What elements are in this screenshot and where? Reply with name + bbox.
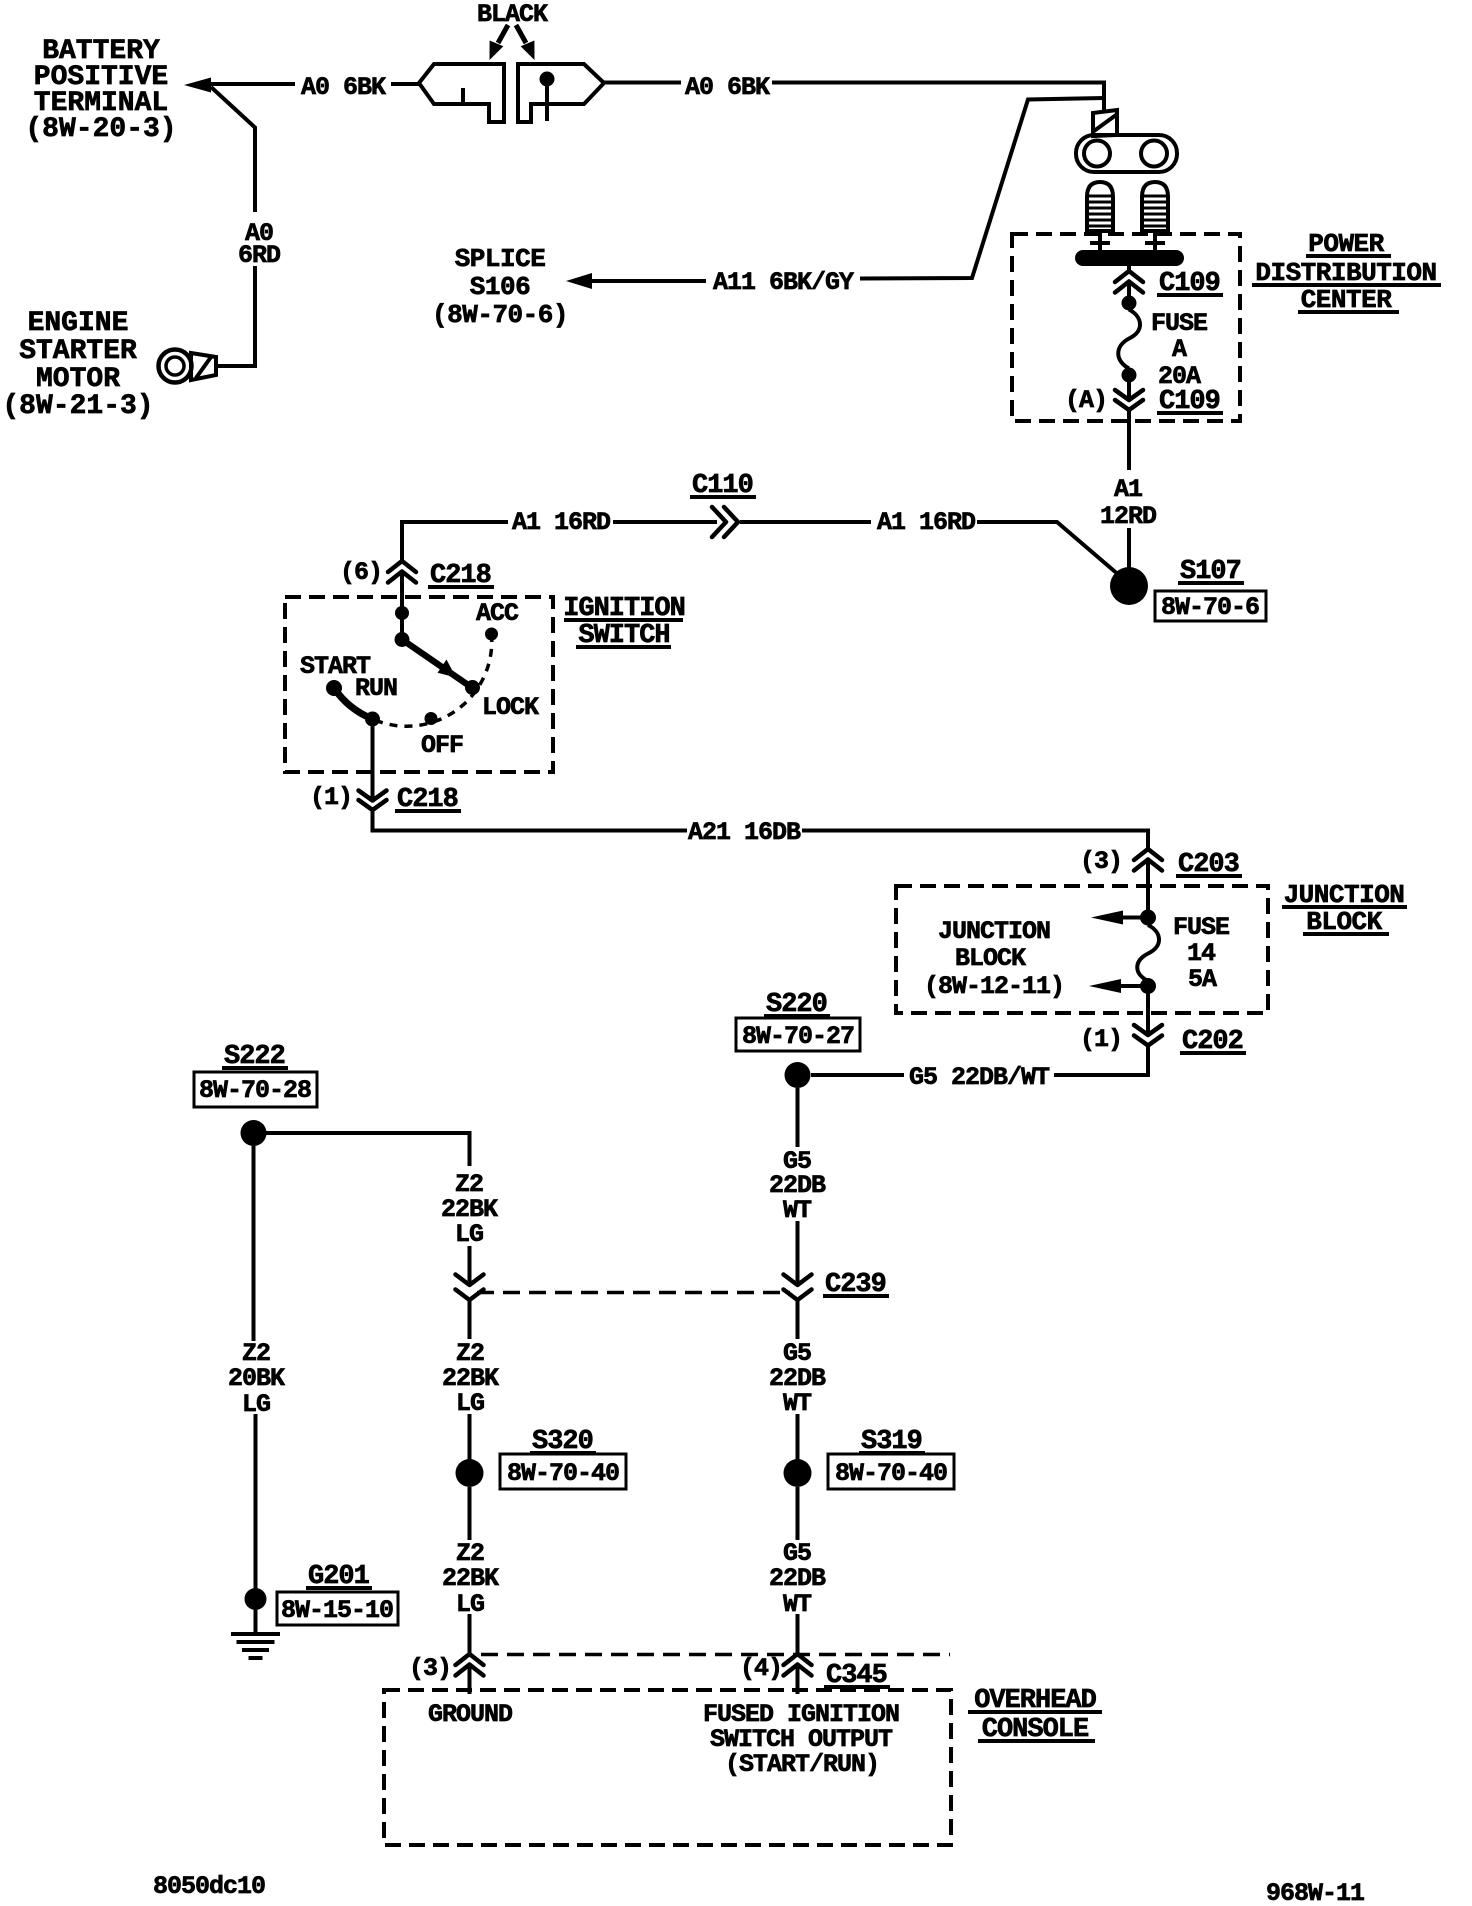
label FUSE 14 5A [1173, 913, 1229, 994]
wire label to S107 [1127, 528, 1131, 568]
wire RUN to C218 pin 1 [371, 723, 375, 801]
wire to splice arrow [592, 279, 706, 283]
OFF position dot [425, 712, 438, 725]
dashed position arc [373, 634, 492, 726]
wire A1 12RD below PDC [1127, 410, 1131, 470]
svg-text:S106: S106 [470, 272, 530, 302]
svg-text:A: A [1172, 335, 1187, 364]
in-line connector left half [419, 64, 504, 122]
svg-text:A11 6BK/GY: A11 6BK/GY [713, 268, 854, 297]
ACC position dot [485, 628, 498, 641]
junction node top [1140, 910, 1156, 926]
wire from label to power distribution center [772, 83, 1104, 114]
connector C109 bottom (down chevrons) [1115, 390, 1143, 410]
svg-text:A1 16RD: A1 16RD [512, 508, 611, 537]
splice S222 node [241, 1120, 267, 1146]
junction block dashed box [896, 886, 1268, 1013]
box 8W-70-40 right [828, 1454, 954, 1489]
wire into ignition switch [400, 572, 404, 608]
wire C239 to label right [796, 1300, 800, 1339]
wire A11 tap with diagonal [860, 98, 1104, 279]
START position dot [326, 680, 342, 696]
svg-text:(8W-70-6): (8W-70-6) [432, 300, 568, 330]
wire to C239 right [796, 1221, 800, 1285]
wire diagonal S107 to A1 16RD [977, 522, 1120, 576]
wire A0 6RD to starter motor [216, 266, 255, 366]
wire C345 pin3 into box [468, 1665, 472, 1695]
splice S106 label [432, 244, 568, 330]
label C109 bottom [1157, 387, 1223, 417]
wire S319 down [796, 1487, 800, 1540]
svg-text:8W-70-6: 8W-70-6 [1161, 593, 1259, 622]
wire bar to connector [1127, 266, 1131, 271]
label C345 [824, 1661, 890, 1691]
thick arc START to RUN [334, 688, 373, 719]
wire label to G201 [254, 1414, 258, 1592]
label G5 22DB WT lower [769, 1539, 826, 1619]
wire between nodes [400, 613, 404, 639]
svg-text:(START/RUN): (START/RUN) [725, 1750, 879, 1779]
label JUNCTION BLOCK (8W-12-11) inside box [924, 917, 1064, 1001]
eyelet terminal [1076, 135, 1177, 172]
label C239 [823, 1270, 889, 1300]
svg-text:968W-11: 968W-11 [1266, 1879, 1364, 1906]
wire label to S319 [796, 1414, 800, 1460]
wire to ignition switch [402, 522, 508, 561]
ring terminal (engine starter motor) [159, 350, 217, 383]
label C109 top [1157, 269, 1223, 299]
box 8W-70-28 [194, 1072, 317, 1107]
arrow BLACK right [516, 25, 535, 60]
wire C110 to label [613, 520, 717, 524]
arrow tap top [1091, 911, 1141, 925]
power distribution center header [1252, 229, 1441, 315]
splice S220 node [785, 1062, 811, 1088]
label C203 [1176, 850, 1242, 880]
wire C345 pin4 into box [796, 1665, 800, 1695]
ground symbol [231, 1634, 280, 1658]
svg-text:FUSE: FUSE [1173, 913, 1229, 942]
wire G201 to ground [254, 1610, 258, 1632]
svg-text:(6): (6) [340, 558, 382, 587]
stud right [1142, 182, 1168, 231]
label Z2 22BK LG mid [442, 1339, 499, 1418]
splice S320 node [456, 1459, 484, 1487]
wire to C239 left [468, 1246, 472, 1285]
connector C345 pin 4 (up chevrons) [784, 1654, 812, 1676]
connector C239 left (down chevrons) [456, 1275, 484, 1301]
svg-text:8W-70-40: 8W-70-40 [835, 1459, 947, 1488]
arrow to splice S106 [566, 273, 592, 289]
wire A0 6BK left segment [206, 82, 295, 86]
label S320 [530, 1427, 596, 1457]
wire S222 down to label [252, 1146, 256, 1341]
label G201 [306, 1562, 372, 1592]
svg-text:A21 16DB: A21 16DB [688, 818, 801, 847]
arrow tap bottom [1089, 979, 1141, 993]
stud stubs into box [1090, 231, 1165, 250]
svg-text:ENGINE: ENGINE [28, 308, 129, 339]
label FUSED IGNITION SWITCH OUTPUT (START/RUN) [703, 1700, 899, 1779]
svg-text:14: 14 [1187, 939, 1216, 968]
wire S220 down [796, 1088, 800, 1147]
svg-text:A1 16RD: A1 16RD [877, 508, 976, 537]
svg-text:BLACK: BLACK [477, 0, 548, 29]
splice S319 node [784, 1459, 812, 1487]
label Z2 20BK LG left [228, 1339, 285, 1419]
svg-text:A0 6BK: A0 6BK [685, 73, 770, 102]
svg-text:LOCK: LOCK [482, 693, 539, 722]
svg-text:A0 6BK: A0 6BK [301, 73, 386, 102]
label C218 top [428, 561, 494, 591]
C345 dashed connector line [481, 1653, 950, 1657]
svg-text:(8W-21-3): (8W-21-3) [2, 391, 153, 422]
label S319 [859, 1427, 925, 1457]
label C110 [690, 471, 756, 501]
connector C218 pin 6 (up chevrons) [388, 561, 416, 583]
svg-text:JUNCTION: JUNCTION [938, 917, 1050, 946]
svg-text:8W-15-10: 8W-15-10 [281, 1596, 393, 1625]
stud left [1087, 182, 1113, 231]
label Z2 22BK LG lower [442, 1539, 499, 1619]
C239 dashed connector line [477, 1291, 790, 1295]
wire A21 16DB left [373, 810, 688, 831]
wire G5 22DB/WT right [1054, 1046, 1148, 1076]
svg-text:OFF: OFF [421, 731, 463, 760]
svg-text:22BK: 22BK [442, 1564, 499, 1593]
wire G5 22DB/WT left [811, 1073, 904, 1077]
connector C109 top (up chevrons) [1115, 271, 1143, 293]
power distribution center dashed box [1012, 234, 1240, 421]
svg-text:(3): (3) [1080, 847, 1122, 876]
svg-text:(1): (1) [1080, 1025, 1122, 1054]
fuse node dot bottom [1122, 368, 1137, 383]
label C218 bottom [395, 785, 461, 815]
svg-text:BLOCK: BLOCK [955, 944, 1026, 973]
wire to C345 pin 4 [796, 1614, 800, 1654]
svg-text:20BK: 20BK [228, 1364, 285, 1393]
wire chevron to fuse dot [1127, 282, 1131, 299]
connector C110 (right chevrons) [712, 507, 738, 537]
svg-text:FUSE: FUSE [1151, 309, 1207, 338]
fuse 14 element [1137, 925, 1159, 981]
svg-text:LG: LG [456, 1389, 484, 1418]
wire label to S320 [468, 1414, 472, 1460]
svg-text:(8W-20-3): (8W-20-3) [25, 114, 176, 145]
svg-text:RUN: RUN [355, 674, 397, 703]
svg-text:A1: A1 [1114, 475, 1142, 504]
svg-text:WT: WT [783, 1196, 812, 1225]
wire S222 to middle column [265, 1133, 470, 1166]
svg-text:STARTER: STARTER [19, 336, 137, 367]
connector C202 (down chevrons) [1134, 1025, 1162, 1046]
battery positive terminal label [25, 36, 176, 145]
engine starter motor label [2, 308, 153, 422]
svg-text:(3): (3) [409, 1654, 451, 1683]
switch pivot node [395, 632, 410, 647]
switch feed node [395, 606, 409, 620]
bus bar [1075, 250, 1184, 266]
svg-text:8W-70-27: 8W-70-27 [742, 1022, 854, 1051]
svg-text:G5 22DB/WT: G5 22DB/WT [909, 1063, 1050, 1092]
wire A21 16DB right [802, 831, 1148, 850]
junction node bottom [1140, 978, 1156, 994]
wire A0 6BK right segment [604, 81, 681, 85]
svg-text:SPLICE: SPLICE [455, 244, 546, 274]
box 8W-70-27 [736, 1018, 860, 1051]
wire A0 6RD diagonal from battery terminal [211, 87, 255, 212]
svg-text:WT: WT [783, 1389, 812, 1418]
svg-text:(A): (A) [1065, 386, 1107, 415]
splice S107 node [1110, 567, 1148, 605]
svg-text:(1): (1) [310, 783, 352, 812]
in-line connector right half [518, 64, 604, 122]
label A1 12RD [1100, 475, 1157, 531]
junction block header [1282, 880, 1407, 937]
svg-text:8W-70-40: 8W-70-40 [507, 1459, 619, 1488]
svg-text:GROUND: GROUND [428, 1700, 513, 1729]
connector C203 (up chevrons) [1134, 849, 1162, 871]
wire to C345 pin 3 [468, 1614, 472, 1654]
arrow to battery positive terminal [184, 78, 211, 93]
ground G201 node [245, 1588, 267, 1610]
svg-text:(8W-12-11): (8W-12-11) [924, 972, 1064, 1001]
label G5 22DB WT mid [769, 1339, 826, 1418]
wire C239 to label mid [468, 1300, 472, 1339]
svg-text:ACC: ACC [476, 599, 519, 628]
label C202 [1180, 1027, 1246, 1057]
svg-text:5A: 5A [1188, 965, 1217, 994]
wire dot to connector C109 bottom [1127, 381, 1131, 400]
label FUSE A 20A [1151, 309, 1207, 391]
connector C218 pin 1 (down chevrons) [359, 791, 387, 811]
box 8W-15-10 [277, 1592, 398, 1625]
svg-text:6RD: 6RD [238, 241, 281, 270]
wiper arm to LOCK [402, 640, 471, 688]
label Z2 22BK LG upper [441, 1170, 498, 1249]
label S220 [764, 990, 830, 1020]
arrow BLACK left [490, 25, 509, 60]
wire label to connector [391, 82, 420, 86]
svg-text:8050dc10: 8050dc10 [153, 1872, 265, 1901]
svg-text:12RD: 12RD [1100, 502, 1157, 531]
svg-text:LG: LG [455, 1220, 483, 1249]
ignition switch dashed box [285, 597, 553, 772]
box 8W-70-40 left [500, 1454, 626, 1489]
wire to C202 [1146, 992, 1150, 1035]
wire seal at PDC [1093, 110, 1117, 136]
label A0 6RD [238, 219, 281, 270]
label G5 22DB WT upper [769, 1147, 826, 1225]
overhead console header [968, 1686, 1102, 1745]
fuse A 20A element [1118, 310, 1140, 369]
label S222 [222, 1042, 288, 1072]
box 8W-70-6 [1155, 591, 1266, 622]
svg-text:22DB: 22DB [769, 1564, 826, 1593]
wire to C110 [740, 520, 871, 524]
RUN position dot [365, 712, 380, 727]
wire into junction block [1146, 860, 1150, 911]
fuse node dot top [1122, 296, 1137, 311]
overhead console dashed box [384, 1690, 951, 1845]
svg-text:8W-70-28: 8W-70-28 [199, 1076, 311, 1105]
label S107 [1178, 557, 1244, 587]
connector C345 pin 3 (up chevrons) [456, 1654, 484, 1676]
LOCK position dot [465, 680, 480, 695]
ignition switch header [563, 594, 685, 651]
svg-text:(4): (4) [740, 1654, 782, 1683]
connector C239 right (down chevrons) [784, 1275, 812, 1301]
wire S320 down [468, 1487, 472, 1540]
